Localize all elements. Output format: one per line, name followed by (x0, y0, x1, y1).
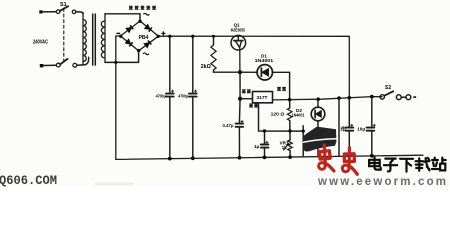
svg-text:10μ: 10μ (357, 127, 365, 132)
svg-text:1k: 1k (282, 145, 288, 150)
svg-text:0.47μ: 0.47μ (223, 123, 234, 128)
svg-text:MJE3055: MJE3055 (231, 28, 246, 33)
svg-text:4700μ: 4700μ (178, 93, 188, 99)
svg-text:1N4001: 1N4001 (255, 58, 274, 63)
svg-text:www.eeworm.com: www.eeworm.com (317, 176, 446, 187)
svg-text:240VAC: 240VAC (33, 40, 48, 46)
svg-text:Q606.COM: Q606.COM (0, 174, 57, 187)
svg-text:1N4001: 1N4001 (292, 112, 305, 117)
svg-text:317T: 317T (256, 95, 267, 101)
svg-text:2kΩ: 2kΩ (201, 64, 211, 70)
svg-text:1μ: 1μ (254, 144, 260, 149)
svg-text:120 Ω: 120 Ω (271, 112, 285, 118)
svg-text:S1: S1 (60, 2, 67, 8)
svg-text:4700μ: 4700μ (156, 93, 166, 99)
svg-text:PB4: PB4 (139, 35, 149, 41)
svg-text:S2: S2 (385, 85, 391, 91)
